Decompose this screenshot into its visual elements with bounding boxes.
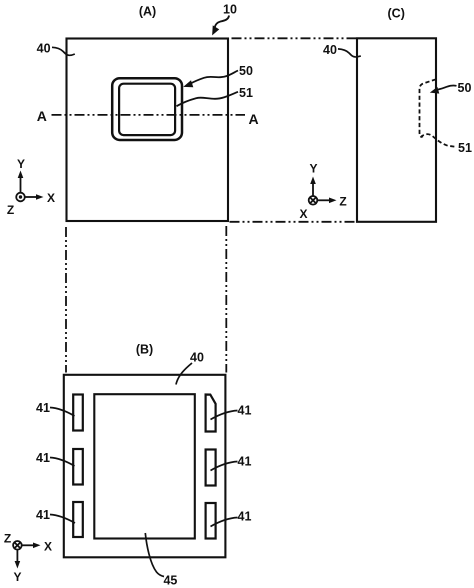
svg-text:41: 41 [238, 455, 252, 469]
element 50 outer rounded square (view A) [112, 78, 182, 140]
svg-text:10: 10 [223, 2, 237, 16]
X axis arrow [22, 544, 35, 546]
axes view A: Y up, X right, Z out of page [16, 171, 43, 202]
leader 41 right bottom [211, 518, 238, 527]
leader 40 (view C) [338, 49, 361, 57]
phantom connector A to B, right [225, 226, 227, 373]
hole 41 left top [73, 395, 83, 431]
svg-text:X: X [47, 191, 55, 205]
leader 51 (view A) [177, 92, 239, 106]
phantom connector A to C, top [232, 37, 357, 39]
svg-text:41: 41 [36, 401, 50, 415]
phantom connector A to B, left [65, 227, 67, 373]
origin symbol Z into page [13, 541, 22, 550]
leader 50 with arrowhead (view A) [191, 71, 239, 84]
leader 41 left bottom [50, 515, 75, 524]
svg-text:X: X [299, 207, 307, 221]
svg-text:Y: Y [17, 157, 25, 171]
svg-text:Z: Z [339, 195, 346, 209]
svg-text:41: 41 [36, 451, 50, 465]
svg-text:41: 41 [238, 404, 252, 418]
svg-text:40: 40 [190, 351, 204, 365]
svg-text:50: 50 [239, 64, 253, 78]
hole 41 left middle [73, 449, 83, 485]
section line A-A [52, 114, 246, 116]
plate 40 outline, view A [67, 39, 229, 222]
svg-text:X: X [44, 540, 52, 554]
svg-text:Z: Z [4, 532, 11, 546]
hole 41 left bottom [73, 502, 83, 537]
svg-text:A: A [248, 111, 258, 127]
svg-text:Y: Y [309, 162, 317, 176]
svg-text:(C): (C) [388, 7, 405, 21]
svg-text:51: 51 [458, 141, 472, 155]
hole 41 right middle [206, 450, 216, 486]
leader arrow for 10 [213, 16, 229, 35]
hole 41 right bottom [206, 503, 216, 539]
X axis arrow [25, 196, 38, 198]
svg-text:Y: Y [13, 570, 21, 584]
svg-text:50: 50 [458, 81, 472, 95]
leader 41 left top [50, 408, 75, 417]
element 51 inner rounded square (view A) [119, 84, 175, 135]
svg-text:A: A [37, 108, 47, 124]
Y axis arrow [312, 182, 314, 196]
plate 40 outline, view C [357, 38, 436, 222]
Y axis arrow [20, 176, 22, 193]
svg-text:Z: Z [7, 203, 14, 217]
svg-text:40: 40 [37, 41, 51, 55]
leader 41 left middle [50, 458, 75, 467]
plate 40 outline, view B [64, 375, 226, 558]
leader 40 (view A) [52, 47, 75, 55]
svg-text:41: 41 [36, 508, 50, 522]
opening 45 inner rectangle (view B) [94, 394, 195, 538]
leader 41 right top [211, 411, 238, 420]
svg-text:40: 40 [323, 43, 337, 57]
svg-text:45: 45 [163, 574, 177, 588]
svg-text:(A): (A) [139, 4, 156, 18]
leader 40 (view B) [176, 363, 192, 385]
origin symbol X into page [309, 196, 318, 205]
hole 41 right top (chamfered corner) [206, 395, 216, 432]
svg-text:41: 41 [238, 510, 252, 524]
Z axis arrow [317, 199, 330, 201]
origin symbol Z out of page [16, 193, 25, 202]
leader 45 [145, 533, 164, 577]
phantom connector A to C, bottom [230, 221, 357, 223]
svg-text:51: 51 [239, 86, 253, 100]
axes view C: Y up, Z right, X into page [309, 177, 337, 205]
hidden outline of element 50 (view C, dashed) [420, 79, 436, 136]
hidden outline of element 51 and its leader (view C, dashed) [421, 134, 457, 147]
svg-text:(B): (B) [136, 342, 153, 356]
Y axis arrow [16, 550, 18, 563]
leader 50 with arrowhead (view C) [437, 85, 457, 89]
leader 41 right middle [211, 462, 238, 471]
axes view B: X right, Y down, Z into page [13, 541, 40, 569]
